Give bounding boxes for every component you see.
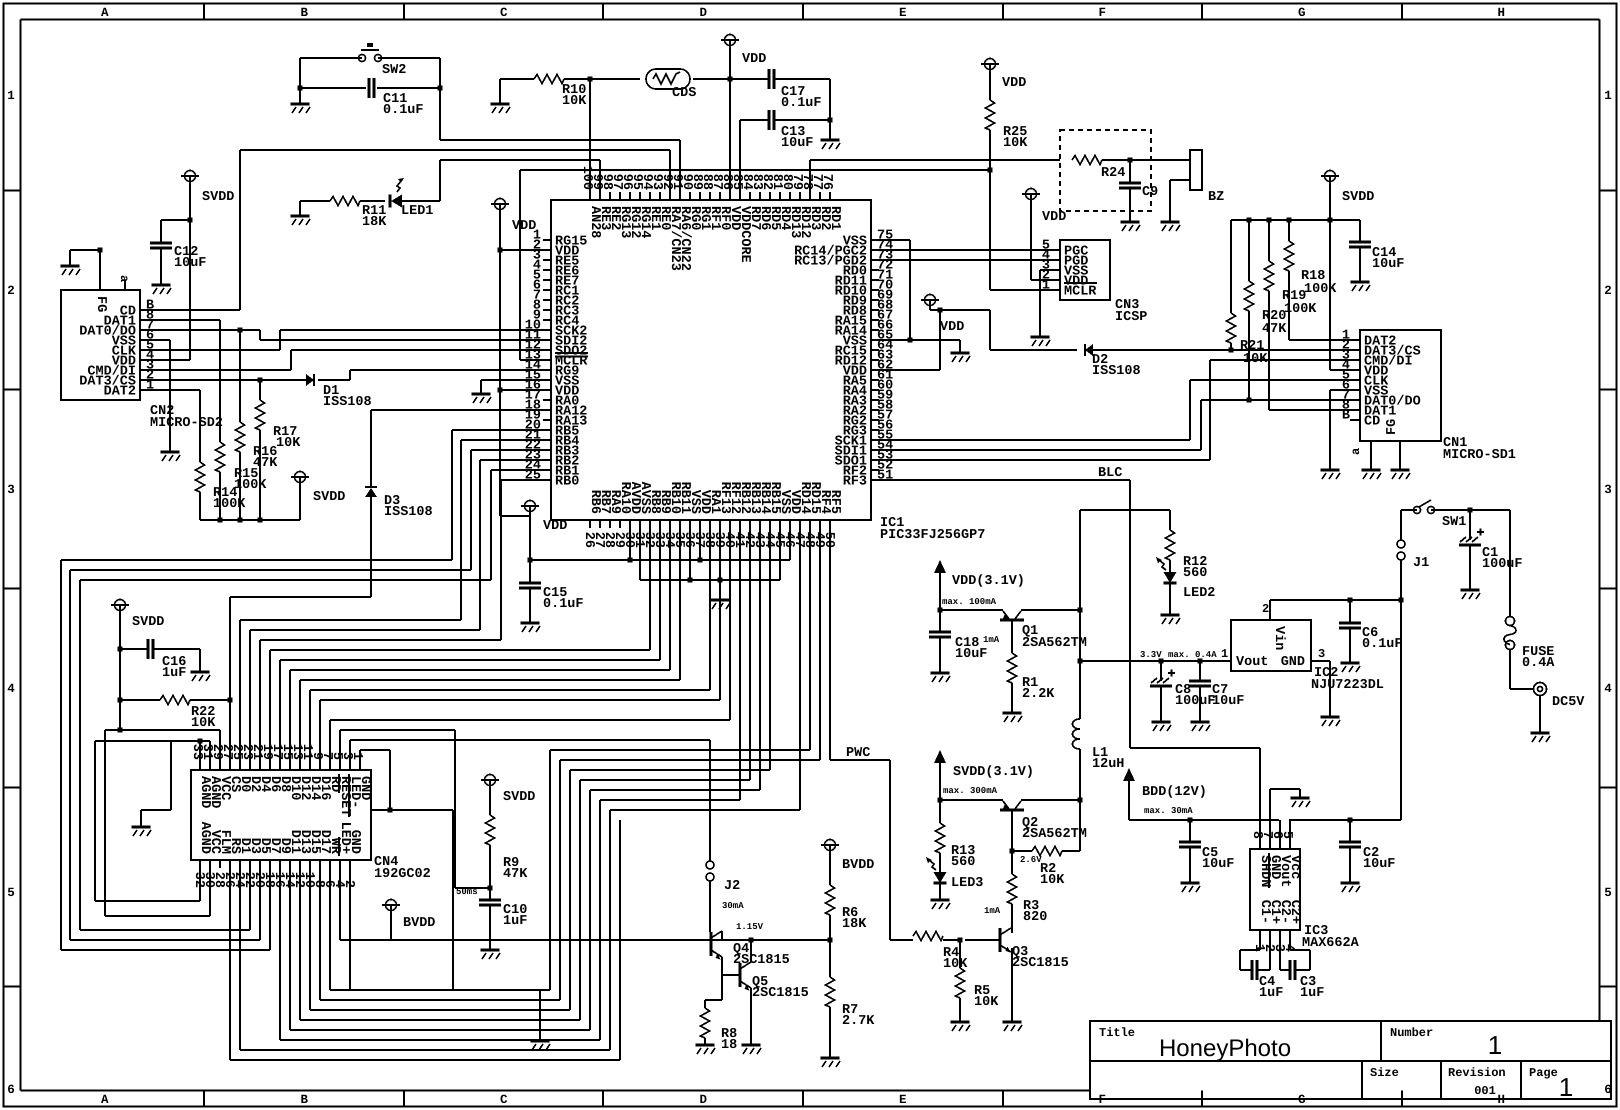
connector CN3 ICSP body — [1060, 240, 1110, 300]
svg-text:2SC1815: 2SC1815 — [1012, 956, 1069, 971]
wire RESET delay — [339, 730, 341, 762]
svg-text:BVDD: BVDD — [842, 858, 874, 873]
svg-text:2.2K: 2.2K — [1022, 687, 1055, 702]
wire 3.3V rail to IC2 — [1078, 659, 1083, 664]
svg-text:3: 3 — [1318, 647, 1325, 661]
capacitor C6 — [1349, 600, 1351, 623]
ground R11 — [299, 201, 301, 216]
svg-text:Revision: Revision — [1448, 1066, 1506, 1080]
wire bundle CN4 data west risers — [239, 620, 241, 762]
resistor R20 — [1248, 220, 1250, 281]
svg-text:CDS: CDS — [672, 86, 696, 101]
wire pullup rail — [200, 519, 300, 521]
IC3 bottom pins — [1259, 930, 1261, 938]
ground C1 — [1461, 589, 1480, 592]
power SVDD above R22 — [115, 600, 126, 611]
wire DAT3/CS to D1 — [148, 379, 306, 381]
svg-text:51: 51 — [877, 469, 893, 484]
svg-text:DC5V: DC5V — [1552, 695, 1585, 710]
wire IC3 Vcc — [1289, 820, 1291, 841]
wire CN3 VDD — [1031, 279, 1052, 281]
wire SVDD to CN4 VCC — [120, 729, 220, 731]
diode D3 — [370, 410, 372, 487]
svg-text:BVDD: BVDD — [403, 916, 435, 931]
svg-text:2.7K: 2.7K — [842, 1014, 875, 1029]
svg-text:2SC1815: 2SC1815 — [752, 986, 809, 1001]
svg-text:DAT2: DAT2 — [104, 385, 136, 400]
fuse FUSE 0.4A — [1506, 617, 1515, 626]
power VDD top — [725, 35, 736, 46]
wire CMD/DI to SDO2 — [148, 369, 291, 371]
resistor R19 — [1268, 220, 1270, 261]
ground AVSS — [719, 580, 721, 600]
svg-text:BZ: BZ — [1208, 190, 1224, 205]
power BVDD divider — [825, 840, 836, 851]
transistor Q5 2SC1815 — [739, 963, 742, 987]
wire Q4 collector rail — [721, 931, 723, 940]
svg-text:100K: 100K — [234, 478, 267, 493]
capacitor C9 — [1129, 160, 1131, 183]
ground R10 — [499, 79, 501, 104]
resistor R10 — [500, 78, 534, 80]
svg-text:5: 5 — [1604, 886, 1612, 900]
wire pin91 drop — [679, 140, 681, 192]
svg-text:10K: 10K — [562, 94, 587, 109]
svg-text:SVDD: SVDD — [202, 190, 234, 205]
resistor R12 — [1169, 510, 1171, 530]
wire pin62 VDD — [879, 369, 940, 371]
svg-text:1uF: 1uF — [503, 914, 527, 929]
svg-text:47K: 47K — [1262, 322, 1287, 337]
svg-text:RF5: RF5 — [827, 490, 842, 514]
svg-text:C: C — [500, 6, 508, 20]
svg-text:001: 001 — [1474, 1084, 1496, 1098]
resistor R22 — [120, 699, 160, 701]
svg-text:1mA: 1mA — [983, 635, 1000, 645]
resistor R9 and C10 delay — [485, 775, 496, 786]
svg-text:10K: 10K — [1040, 873, 1065, 888]
svg-text:Page: Page — [1529, 1066, 1558, 1080]
wire nest east links — [550, 749, 810, 751]
ground C10 — [481, 949, 500, 952]
svg-text:B: B — [300, 6, 308, 20]
svg-text:1: 1 — [1604, 89, 1612, 103]
ground LED3 — [939, 883, 941, 900]
ground R1 — [1003, 712, 1022, 715]
title block — [1090, 1021, 1611, 1099]
svg-text:2SC1815: 2SC1815 — [733, 953, 790, 968]
wire under-CN4 nest — [229, 868, 231, 1060]
svg-text:2SA562TM: 2SA562TM — [1022, 636, 1087, 651]
node R10/CDS junction — [588, 77, 593, 82]
svg-text:100K: 100K — [213, 497, 246, 512]
resistor R4 — [890, 939, 913, 941]
svg-text:192GC02: 192GC02 — [374, 867, 431, 882]
svg-text:1: 1 — [1221, 647, 1228, 661]
svg-text:GND: GND — [357, 776, 372, 800]
LED LED3 — [934, 872, 947, 883]
svg-text:0.1uF: 0.1uF — [383, 103, 424, 118]
svg-text:1uF: 1uF — [162, 666, 186, 681]
svg-text:Vin: Vin — [1271, 626, 1286, 650]
resistor R5 — [959, 940, 961, 968]
svg-text:a: a — [117, 275, 131, 282]
wire RA12 to D3 — [371, 409, 543, 411]
ground C2 — [1341, 882, 1360, 885]
transistor Q1 2SA562TM — [940, 609, 1003, 611]
wire R19 to DAT1 — [1269, 409, 1352, 411]
svg-text:10uF: 10uF — [781, 136, 813, 151]
svg-text:LED3: LED3 — [951, 876, 983, 891]
svg-text:max. 30mA: max. 30mA — [1144, 806, 1193, 816]
svg-text:SVDD(3.1V): SVDD(3.1V) — [953, 765, 1034, 780]
svg-text:F: F — [1098, 1093, 1106, 1107]
capacitor C5 — [1189, 820, 1191, 842]
svg-text:R24: R24 — [1101, 166, 1125, 181]
resistor R25 — [989, 70, 991, 100]
capacitor C7 — [1198, 659, 1203, 664]
ground DC5V — [1539, 695, 1541, 733]
dashed box R24/C9 — [1060, 130, 1151, 211]
ground CN4 AGND — [132, 826, 151, 829]
resistor R24 — [1072, 156, 1102, 165]
wire CN1 CMD/DI to SDO1 — [1210, 359, 1352, 361]
svg-text:D: D — [699, 6, 707, 20]
ground C15 — [521, 622, 540, 625]
wire left bundle RB1 to D3 — [60, 560, 62, 950]
IC1 top pins 100-76 — [589, 192, 591, 200]
svg-text:B: B — [300, 1093, 308, 1107]
svg-text:NJU7223DL: NJU7223DL — [1311, 678, 1384, 693]
svg-text:SW2: SW2 — [382, 63, 406, 78]
svg-text:76: 76 — [819, 174, 834, 190]
ground C17/C13 — [829, 120, 831, 140]
wire SW1 to fuse — [1470, 509, 1510, 511]
svg-text:3: 3 — [7, 483, 15, 497]
svg-text:ISS108: ISS108 — [323, 395, 372, 410]
wire Vin rail — [1270, 599, 1401, 601]
svg-text:10K: 10K — [1003, 136, 1028, 151]
net BZ rail — [810, 159, 1060, 161]
svg-text:J2: J2 — [724, 879, 740, 894]
resistor R11 — [300, 200, 330, 202]
svg-text:0.1uF: 0.1uF — [781, 96, 822, 111]
svg-text:HoneyPhoto: HoneyPhoto — [1159, 1035, 1291, 1062]
svg-text:D: D — [699, 1093, 707, 1107]
ground C12 — [152, 284, 171, 287]
svg-text:VDD: VDD — [940, 320, 964, 335]
ground R8 — [696, 1044, 715, 1047]
connector CN2 MICRO-SD2 body — [61, 290, 140, 400]
IC1 bottom pins 26-50 — [589, 520, 591, 528]
svg-text:10uF: 10uF — [955, 647, 987, 662]
wire CN4 AGND chain — [171, 740, 210, 742]
svg-text:1uF: 1uF — [1300, 986, 1324, 1001]
svg-text:BDD(12V): BDD(12V) — [1142, 785, 1207, 800]
power VDD under IC — [525, 501, 536, 512]
wire R22 to CS and D3 — [229, 597, 231, 762]
CN2 VSS ground — [140, 339, 170, 341]
svg-text:PIC33FJ256GP7: PIC33FJ256GP7 — [880, 528, 985, 543]
capacitor C3 — [1279, 938, 1281, 970]
wire fuse to jack — [1509, 649, 1511, 689]
wire pin75 VSS to pin65 — [879, 239, 910, 241]
wire BZ lower terminal — [1170, 179, 1190, 181]
ground IC3 — [1291, 797, 1310, 800]
svg-text:18K: 18K — [362, 215, 387, 230]
svg-text:E: E — [899, 6, 907, 20]
wire Q3 collector — [1011, 928, 1013, 933]
svg-text:B: B — [1342, 409, 1350, 424]
svg-text:C9: C9 — [1142, 185, 1158, 200]
svg-text:VDD: VDD — [742, 52, 766, 67]
wire SVDD rail — [1231, 219, 1360, 221]
svg-text:FG: FG — [93, 296, 108, 312]
svg-text:Number: Number — [1390, 1026, 1433, 1040]
resistor R1 — [1011, 620, 1013, 653]
CN4 WR overline — [338, 837, 340, 856]
IC1 PIC33FJ256GP7 body — [551, 200, 871, 520]
capacitor C17 — [730, 78, 770, 80]
wire CN1 CLK to SCK1 — [1190, 379, 1352, 381]
net MCLR rail — [520, 169, 990, 171]
wire IC2 GND — [1329, 661, 1331, 717]
capacitor C13 — [769, 110, 774, 130]
switch SW1 — [1401, 509, 1417, 511]
capacitor C11 — [369, 78, 374, 98]
resistor R3 — [1011, 851, 1013, 874]
wire DAT2 to R14 — [148, 389, 200, 391]
wire CLK to SCK2 — [148, 349, 280, 351]
wire Q2 base chain — [1011, 810, 1013, 851]
svg-text:10uF: 10uF — [1372, 257, 1404, 272]
capacitor C16 — [120, 648, 148, 650]
svg-text:H: H — [1497, 1093, 1505, 1107]
svg-text:50: 50 — [821, 532, 836, 548]
svg-text:10uF: 10uF — [1202, 857, 1234, 872]
CN3 pins — [1052, 249, 1060, 251]
transistor Q4 2SC1815 — [710, 932, 713, 956]
svg-text:H: H — [1497, 6, 1505, 20]
wire CN3 VSS ground — [1040, 269, 1052, 271]
wire C13 to pin85 — [739, 120, 741, 192]
svg-text:PWC: PWC — [846, 746, 870, 761]
svg-text:a: a — [1349, 448, 1363, 455]
jack DC5V — [1534, 683, 1547, 696]
svg-text:C: C — [500, 1093, 508, 1107]
wire LED1 to pin99 — [401, 200, 440, 202]
resistor R16 — [239, 330, 241, 422]
wire SVDD column — [119, 611, 121, 730]
svg-text:SVDD: SVDD — [1342, 190, 1374, 205]
ground C7 — [1191, 721, 1210, 724]
svg-text:50ms: 50ms — [456, 887, 478, 897]
IC1 left pins 1-25 — [543, 239, 551, 241]
transistor Q2 2SA562TM — [940, 799, 1003, 801]
svg-text:560: 560 — [1183, 566, 1207, 581]
wire GND top loop — [359, 750, 361, 762]
wire Q5 base — [722, 974, 740, 976]
svg-text:47K: 47K — [253, 456, 278, 471]
resistor R6 — [829, 851, 831, 885]
svg-text:12uH: 12uH — [1092, 757, 1124, 772]
svg-text:RF3: RF3 — [843, 475, 867, 490]
wire CN4 AGND pin32 jog — [199, 868, 201, 901]
power VDD near D2 — [925, 295, 936, 306]
resistor R17 — [259, 380, 261, 400]
wire BDD rail — [1129, 819, 1279, 821]
switch SW2 — [359, 55, 366, 62]
wire bundle D6-D16 to RB8-RF13 — [269, 650, 271, 762]
power BVDD rail — [339, 868, 341, 940]
LED LED2 — [1164, 572, 1177, 583]
capacitor C18 — [939, 610, 941, 632]
svg-text:100uF: 100uF — [1482, 557, 1523, 572]
svg-text:G: G — [1298, 6, 1306, 20]
svg-text:SVDD: SVDD — [503, 790, 535, 805]
svg-text:ICSP: ICSP — [1115, 310, 1147, 325]
svg-text:A: A — [101, 1093, 109, 1107]
connector J1 — [1397, 540, 1405, 548]
svg-text:2: 2 — [1604, 284, 1612, 298]
wire R25 to CN3 MCLR — [989, 170, 991, 290]
svg-text:3: 3 — [1604, 483, 1612, 497]
wire VDD to D2 — [929, 306, 931, 310]
resistor R14 — [196, 462, 205, 492]
wire CN1 VDD to SVDD — [1330, 369, 1352, 371]
resistor R18 — [1288, 220, 1290, 241]
svg-text:100K: 100K — [1284, 302, 1317, 317]
diode D1 — [306, 374, 314, 386]
svg-text:CD: CD — [1364, 415, 1380, 430]
capacitor C2 — [1349, 820, 1351, 842]
wire VDD riser to C15 — [500, 515, 530, 517]
wire left bundle RB3 to D5 — [70, 939, 260, 941]
wire Q3 base — [965, 939, 1000, 941]
svg-text:LED2: LED2 — [1183, 586, 1215, 601]
wire Q5 collector — [750, 940, 752, 962]
buzzer BZ — [1130, 159, 1190, 161]
wire Q3 emitter ground — [1011, 948, 1013, 1022]
wire MCLR riser to rail — [519, 170, 521, 360]
svg-text:0.1uF: 0.1uF — [543, 597, 584, 612]
wire SW2 loop — [299, 58, 301, 88]
wire BLC to SHDN — [1130, 747, 1260, 749]
LED LED1 — [391, 195, 402, 208]
power SVDD upper-left — [185, 171, 196, 182]
svg-text:VDD: VDD — [543, 519, 567, 534]
wire PGC from pin74 — [879, 249, 1052, 251]
svg-text:ISS108: ISS108 — [384, 505, 433, 520]
wire DAT0/DO to SDI2 — [148, 329, 260, 331]
svg-text:10uF: 10uF — [1212, 694, 1244, 709]
wire D2 to R21/CN1 — [1093, 349, 1352, 351]
connector J2 — [709, 740, 711, 861]
svg-text:1: 1 — [349, 752, 364, 760]
wire IC3 Vout to BDD — [1279, 820, 1281, 841]
IC2 NJU7223DL body — [1231, 620, 1311, 671]
capacitor C12 — [161, 219, 190, 221]
resistor R7 — [829, 940, 831, 977]
svg-text:MICRO-SD1: MICRO-SD1 — [1443, 448, 1516, 463]
svg-text:5: 5 — [7, 886, 15, 900]
ground C11 — [299, 88, 301, 104]
power SVDD right — [1325, 171, 1336, 182]
svg-text:820: 820 — [1023, 910, 1047, 925]
ground BZ — [1161, 221, 1180, 224]
wire Vcc rail — [1289, 819, 1401, 821]
wire VDD bus bottom — [530, 559, 790, 561]
CN4 bottom pins — [199, 860, 201, 868]
wire D1 to RG9 — [318, 379, 350, 381]
svg-text:J1: J1 — [1413, 556, 1429, 571]
transistor Q3 2SC1815 — [999, 928, 1002, 952]
ground LED2 — [1169, 583, 1171, 615]
svg-text:2: 2 — [7, 284, 15, 298]
ground C5 — [1181, 882, 1200, 885]
photocell CDS — [590, 78, 640, 80]
svg-text:2.6V: 2.6V — [1020, 855, 1042, 865]
svg-text:Vout: Vout — [1236, 655, 1268, 670]
capacitor C8 — [1159, 659, 1164, 664]
resistor R15 — [219, 320, 221, 442]
svg-text:1: 1 — [1559, 1072, 1573, 1102]
svg-text:Size: Size — [1370, 1066, 1399, 1080]
svg-text:MICRO-SD2: MICRO-SD2 — [150, 416, 223, 431]
svg-text:1: 1 — [1488, 1030, 1502, 1060]
svg-text:2: 2 — [341, 880, 356, 888]
diode D2 — [1085, 344, 1093, 356]
svg-text:F: F — [1098, 6, 1106, 20]
svg-text:18: 18 — [721, 1038, 737, 1053]
ground CN1 mounts — [1362, 469, 1381, 472]
svg-text:2: 2 — [1262, 602, 1269, 616]
svg-text:4: 4 — [7, 682, 15, 696]
resistor R13 — [939, 800, 941, 823]
power SVDD pullup rail — [299, 483, 301, 520]
IC3 top pins — [1259, 841, 1261, 849]
wire SVDD to CN2 VDD — [189, 182, 191, 360]
svg-text:1: 1 — [7, 89, 15, 103]
connector CN1 MICRO-SD1 body — [1360, 330, 1441, 441]
wire PGD from pin73 — [879, 259, 1052, 261]
svg-text:47K: 47K — [503, 867, 528, 882]
svg-text:MCLR: MCLR — [1064, 285, 1097, 300]
wire CN4 VCC pin30 jog — [209, 868, 211, 916]
svg-text:max. 0.4A: max. 0.4A — [1168, 650, 1217, 660]
svg-text:VDD(3.1V): VDD(3.1V) — [952, 574, 1025, 589]
svg-text:10uF: 10uF — [174, 256, 206, 271]
ground nest — [539, 990, 541, 1041]
capacitor C15 — [519, 583, 541, 588]
svg-text:GND: GND — [347, 830, 362, 854]
wire IC3 GND — [1269, 789, 1271, 841]
ground C16 — [191, 671, 210, 674]
wire Q4 emitter — [721, 957, 723, 1000]
svg-text:BLC: BLC — [1098, 466, 1122, 481]
capacitor C10 — [489, 888, 491, 900]
CN2 mount pins and ground — [99, 250, 101, 290]
wire CD to pin92 — [148, 309, 240, 311]
svg-text:VDD: VDD — [1042, 210, 1066, 225]
svg-text:10K: 10K — [974, 995, 999, 1010]
wire VDD to pin86 — [729, 79, 731, 192]
svg-text:10K: 10K — [276, 436, 301, 451]
wire pin65 VSS ground — [879, 339, 960, 341]
power VDD(3.1V) arrow — [934, 560, 946, 573]
inductor L1 — [1079, 610, 1081, 719]
svg-text:2SA562TM: 2SA562TM — [1022, 827, 1087, 842]
